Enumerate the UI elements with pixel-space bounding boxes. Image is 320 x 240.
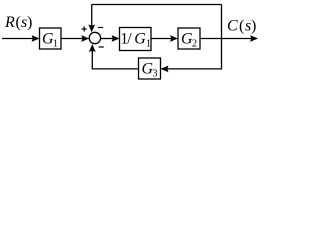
svg-text:2: 2 — [192, 39, 197, 50]
svg-text:(: ( — [239, 18, 244, 35]
svg-text:G: G — [134, 31, 146, 48]
svg-text:): ) — [27, 14, 32, 31]
svg-text:1: 1 — [146, 39, 151, 50]
svg-text:R: R — [4, 14, 15, 31]
svg-text:): ) — [251, 18, 256, 35]
svg-text:3: 3 — [153, 69, 158, 80]
svg-text:/: / — [127, 31, 132, 48]
svg-text:1: 1 — [53, 39, 58, 50]
svg-text:C: C — [227, 18, 238, 35]
